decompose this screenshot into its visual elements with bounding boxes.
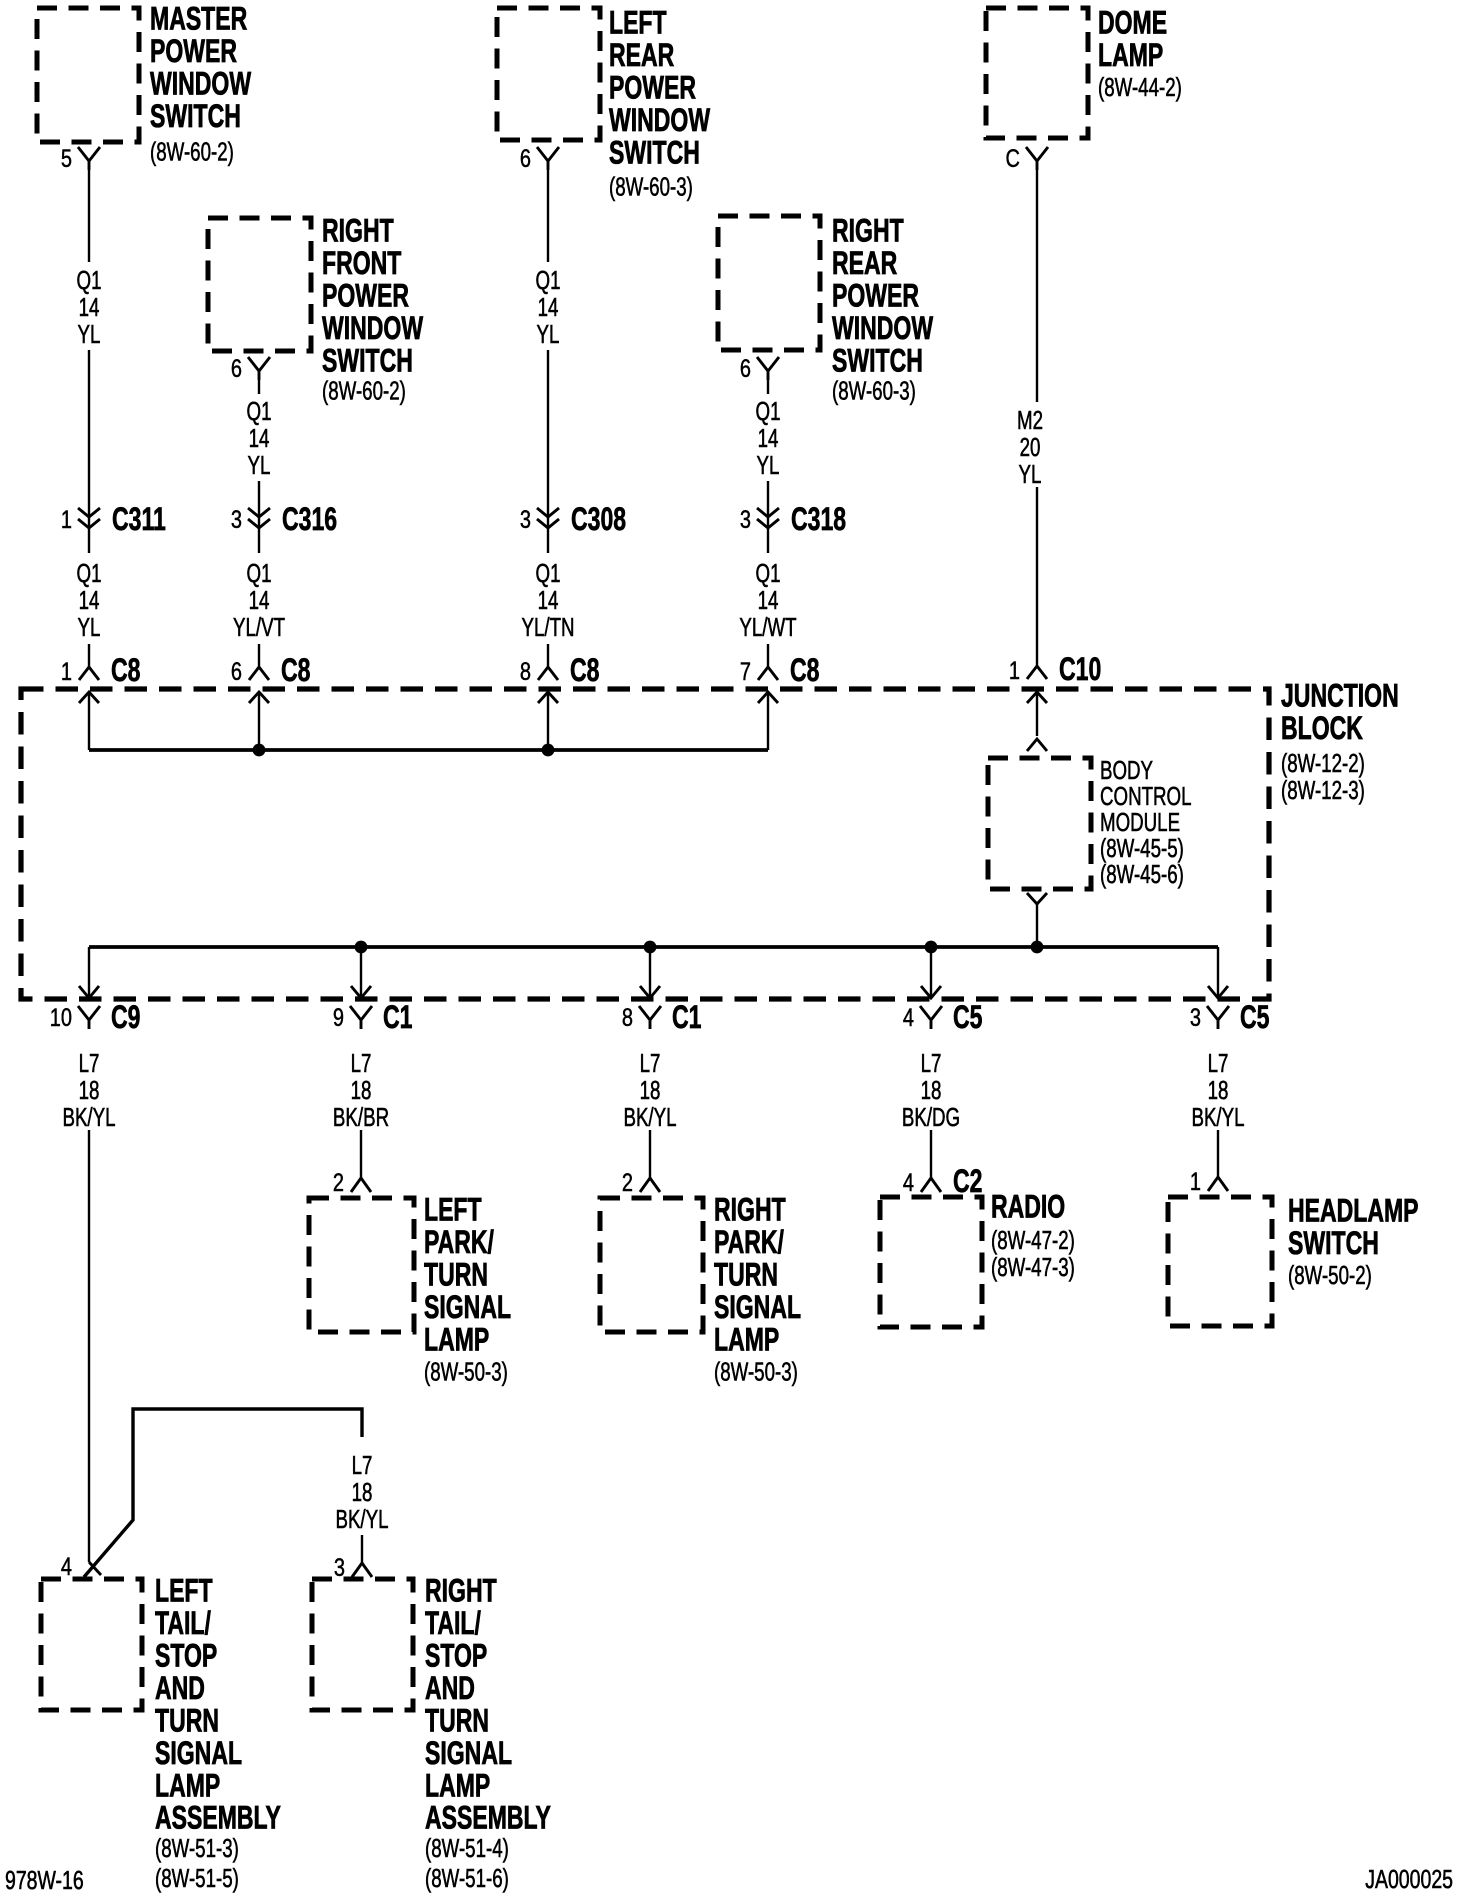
svg-text:YL/WT: YL/WT	[739, 612, 796, 642]
svg-text:LAMP: LAMP	[425, 1768, 490, 1804]
svg-text:18: 18	[79, 1075, 100, 1105]
svg-text:ASSEMBLY: ASSEMBLY	[155, 1800, 281, 1836]
svg-text:(8W-50-3): (8W-50-3)	[714, 1356, 798, 1386]
svg-text:14: 14	[79, 585, 100, 615]
junction block connector C1 pin 9	[333, 999, 413, 1035]
wire label Q1 14 YL/WT (to C8 pin 7)	[739, 558, 796, 642]
svg-text:BK/YL: BK/YL	[335, 1504, 388, 1534]
svg-text:L7: L7	[921, 1048, 942, 1078]
wire label L7 18 BK/YL (C9 pin 10)	[62, 1048, 115, 1132]
svg-text:7: 7	[740, 658, 751, 686]
wire to right park/turn signal lamp	[649, 1130, 651, 1178]
svg-text:WINDOW: WINDOW	[322, 310, 424, 346]
svg-text:TAIL/: TAIL/	[155, 1605, 211, 1641]
svg-text:C1: C1	[672, 999, 701, 1035]
svg-text:C318: C318	[791, 501, 846, 537]
label: radio	[991, 1189, 1075, 1282]
svg-text:14: 14	[758, 423, 779, 453]
connector pin 6 of right rear power window switch	[740, 355, 779, 383]
arrow into junction block from C8 pin 7	[758, 692, 778, 750]
svg-text:JA000025: JA000025	[1365, 1864, 1453, 1893]
svg-text:YL: YL	[248, 450, 271, 480]
label: right rear power window switch	[832, 213, 934, 405]
wire from left rear switch (lower segment)	[547, 350, 549, 553]
wire label Q1 14 YL (left rear)	[536, 265, 561, 349]
svg-text:9: 9	[333, 1004, 344, 1032]
svg-text:C311: C311	[112, 501, 166, 537]
connector pin 6 of right front power window switch	[231, 355, 270, 383]
svg-text:(8W-45-6): (8W-45-6)	[1100, 859, 1184, 889]
svg-text:(8W-60-3): (8W-60-3)	[609, 171, 693, 201]
arrow out of junction block to C5 pin 3	[1208, 947, 1228, 998]
svg-text:4: 4	[903, 1169, 914, 1197]
footer sheet number 978W-16	[5, 1865, 84, 1894]
connector pin 2 of left park/turn signal lamp	[333, 1169, 371, 1197]
wire from right rear switch (lower segment)	[767, 481, 769, 553]
label: right park/turn signal lamp	[714, 1192, 801, 1386]
in-line connector C311	[61, 501, 166, 537]
label: headlamp switch	[1288, 1193, 1419, 1290]
wire label L7 18 BK/YL (C5 pin 3)	[1191, 1048, 1244, 1132]
bus wire from body control module to output pins	[89, 945, 1218, 949]
svg-text:3: 3	[231, 506, 242, 534]
svg-text:C8: C8	[111, 652, 140, 688]
svg-text:SIGNAL: SIGNAL	[155, 1735, 242, 1771]
svg-text:YL: YL	[537, 319, 560, 349]
wire to radio	[930, 1130, 932, 1178]
svg-text:2: 2	[622, 1169, 633, 1197]
svg-text:(8W-12-2): (8W-12-2)	[1281, 748, 1365, 778]
svg-text:5: 5	[61, 145, 72, 173]
svg-text:FRONT: FRONT	[322, 245, 401, 281]
svg-text:C1: C1	[383, 999, 412, 1035]
wire label L7 18 BK/YL (C1 pin 8)	[623, 1048, 676, 1132]
svg-text:3: 3	[520, 506, 531, 534]
wire into C8 pin 7	[767, 644, 769, 667]
wire from dome lamp (lower segment)	[1036, 487, 1038, 666]
svg-text:YL: YL	[1019, 459, 1042, 489]
wire label L7 18 BK/DG (C5 pin 4)	[902, 1048, 960, 1132]
wire label Q1 14 YL (to C8 pin 1)	[77, 558, 102, 642]
svg-text:(8W-50-2): (8W-50-2)	[1288, 1260, 1372, 1290]
connector pin 6 of left rear power window switch	[520, 145, 559, 173]
svg-text:14: 14	[758, 585, 779, 615]
svg-text:SIGNAL: SIGNAL	[425, 1735, 512, 1771]
svg-text:LEFT: LEFT	[155, 1573, 213, 1609]
svg-text:L7: L7	[352, 1450, 373, 1480]
svg-text:18: 18	[640, 1075, 661, 1105]
svg-text:TURN: TURN	[425, 1703, 489, 1739]
svg-text:3: 3	[740, 506, 751, 534]
connector pin 4 of left tail lamp assembly	[61, 1553, 101, 1581]
svg-text:WINDOW: WINDOW	[150, 66, 252, 102]
svg-text:RIGHT: RIGHT	[425, 1573, 497, 1609]
wire from right rear switch (upper segment)	[767, 380, 769, 394]
svg-text:L7: L7	[79, 1048, 100, 1078]
svg-text:REAR: REAR	[832, 245, 897, 281]
bus wire linking C8 pins inside junction block	[89, 748, 768, 752]
wire into C8 pin 1	[88, 644, 90, 667]
junction block connector C5 pin 4	[903, 999, 983, 1035]
svg-text:AND: AND	[425, 1670, 475, 1706]
component box: right front power window switch	[208, 218, 311, 351]
svg-text:1: 1	[1190, 1168, 1201, 1196]
svg-text:SWITCH: SWITCH	[832, 343, 923, 379]
component box: headlamp switch	[1168, 1197, 1272, 1326]
svg-text:M2: M2	[1017, 405, 1043, 435]
svg-text:1: 1	[1009, 657, 1020, 685]
wire into right tail lamp assembly	[361, 1535, 363, 1563]
svg-text:C308: C308	[571, 501, 626, 537]
svg-text:POWER: POWER	[322, 278, 409, 314]
junction dot on lower bus at C5 pin 4 wire	[925, 941, 938, 954]
svg-text:(8W-60-2): (8W-60-2)	[150, 136, 234, 166]
label: body control module	[1100, 755, 1191, 889]
svg-text:BK/YL: BK/YL	[623, 1102, 676, 1132]
svg-text:YL/TN: YL/TN	[521, 612, 574, 642]
svg-text:SIGNAL: SIGNAL	[424, 1289, 511, 1325]
svg-text:3: 3	[1190, 1004, 1201, 1032]
junction dot on bus at C8 pin 8 wire	[542, 744, 555, 757]
wire from right front switch (upper segment)	[258, 380, 260, 394]
svg-text:LAMP: LAMP	[424, 1322, 489, 1358]
svg-text:4: 4	[903, 1004, 914, 1032]
junction block connector C1 pin 8	[622, 999, 702, 1035]
arrow out of junction block to C1 pin 9	[351, 947, 371, 998]
svg-text:REAR: REAR	[609, 37, 674, 73]
in-line connector C308	[520, 501, 626, 537]
svg-text:C10: C10	[1059, 651, 1101, 687]
arrow into junction block from C8 pin 6	[249, 692, 269, 750]
branch wire to right tail lamp assembly	[84, 1409, 362, 1577]
svg-text:Q1: Q1	[756, 558, 781, 588]
svg-text:Q1: Q1	[77, 558, 102, 588]
svg-text:JUNCTION: JUNCTION	[1281, 678, 1399, 714]
svg-text:(8W-47-3): (8W-47-3)	[991, 1252, 1075, 1282]
svg-text:L7: L7	[351, 1048, 372, 1078]
junction dot on lower bus at C1 pin 8 wire	[644, 941, 657, 954]
component box: radio	[880, 1197, 982, 1327]
junction block connector C5 pin 3	[1190, 999, 1270, 1035]
svg-text:18: 18	[352, 1477, 373, 1507]
svg-text:STOP: STOP	[425, 1638, 487, 1674]
svg-text:18: 18	[351, 1075, 372, 1105]
svg-text:WINDOW: WINDOW	[832, 310, 934, 346]
svg-text:(8W-47-2): (8W-47-2)	[991, 1225, 1075, 1255]
connector pin 3 of right tail lamp assembly	[334, 1554, 372, 1582]
svg-text:(8W-51-3): (8W-51-3)	[155, 1833, 239, 1863]
wire label Q1 14 YL (master)	[77, 265, 102, 349]
svg-text:C8: C8	[790, 652, 819, 688]
label: left tail/stop and turn signal lamp assembly	[155, 1573, 281, 1893]
svg-text:YL: YL	[757, 450, 780, 480]
connector pin 5 of master power window switch	[61, 145, 100, 173]
svg-text:TURN: TURN	[424, 1257, 488, 1293]
svg-text:SWITCH: SWITCH	[1288, 1225, 1379, 1261]
wire label Q1 14 YL/TN (to C8 pin 8)	[521, 558, 574, 642]
connector chevron into body control module	[1027, 739, 1047, 751]
wire to left park/turn signal lamp	[360, 1130, 362, 1178]
wire into C8 pin 8	[547, 644, 549, 667]
wire label L7 18 BK/YL (right tail)	[335, 1450, 388, 1534]
svg-text:LAMP: LAMP	[714, 1322, 779, 1358]
svg-text:3: 3	[334, 1554, 345, 1582]
svg-text:(8W-44-2): (8W-44-2)	[1098, 72, 1182, 102]
svg-text:C5: C5	[953, 999, 982, 1035]
long wire from C9 to left tail lamp assembly	[88, 1130, 90, 1562]
junction block connector C8 pin 1	[61, 652, 141, 688]
wire into C8 pin 6	[258, 644, 260, 667]
svg-text:RIGHT: RIGHT	[832, 213, 904, 249]
label: left park/turn signal lamp	[424, 1192, 511, 1386]
svg-text:YL: YL	[78, 319, 101, 349]
svg-text:POWER: POWER	[832, 278, 919, 314]
svg-text:1: 1	[61, 506, 72, 534]
junction block connector C10 pin 1	[1009, 651, 1101, 687]
svg-text:WINDOW: WINDOW	[609, 102, 711, 138]
svg-text:BK/YL: BK/YL	[1191, 1102, 1244, 1132]
junction block connector C8 pin 6	[231, 652, 311, 688]
svg-text:8: 8	[520, 658, 531, 686]
svg-text:C8: C8	[570, 652, 599, 688]
svg-text:(8W-60-3): (8W-60-3)	[832, 375, 916, 405]
svg-text:(8W-51-4): (8W-51-4)	[425, 1833, 509, 1863]
svg-text:BLOCK: BLOCK	[1281, 710, 1363, 746]
in-line connector C316	[231, 501, 337, 537]
svg-text:LAMP: LAMP	[1098, 37, 1163, 73]
arrow into junction block from C8 pin 8	[538, 692, 558, 750]
component box: right park/turn signal lamp	[600, 1198, 703, 1332]
label: left rear power window switch	[609, 5, 711, 201]
svg-text:LEFT: LEFT	[424, 1192, 482, 1228]
svg-text:10: 10	[50, 1004, 72, 1032]
wire label Q1 14 YL (right rear)	[756, 396, 781, 480]
junction block (8W-12-2)(8W-12-3) dashed outline	[21, 689, 1269, 999]
connector pin 1 of headlamp switch	[1190, 1168, 1228, 1196]
label: junction block	[1281, 678, 1399, 805]
svg-text:14: 14	[538, 585, 559, 615]
svg-text:1: 1	[61, 658, 72, 686]
wire label L7 18 BK/BR (C1 pin 9)	[333, 1048, 389, 1132]
svg-text:6: 6	[231, 658, 242, 686]
svg-text:ASSEMBLY: ASSEMBLY	[425, 1800, 551, 1836]
junction dot on lower bus at C1 pin 9 wire	[355, 941, 368, 954]
wire to headlamp switch	[1217, 1130, 1219, 1177]
connector C2 pin 4 of radio	[903, 1163, 983, 1199]
component box: body control module	[988, 758, 1091, 889]
svg-text:(8W-51-6): (8W-51-6)	[425, 1863, 509, 1893]
svg-text:PARK/: PARK/	[714, 1224, 784, 1260]
svg-text:BK/DG: BK/DG	[902, 1102, 960, 1132]
svg-text:LEFT: LEFT	[609, 5, 667, 41]
svg-text:C9: C9	[111, 999, 140, 1035]
wire label Q1 14 YL/VT (to C8 pin 6)	[233, 558, 285, 642]
svg-text:L7: L7	[1208, 1048, 1229, 1078]
svg-text:PARK/: PARK/	[424, 1224, 494, 1260]
label: dome lamp	[1098, 5, 1182, 102]
svg-text:AND: AND	[155, 1670, 205, 1706]
svg-text:6: 6	[740, 355, 751, 383]
arrow into junction block from C8 pin 1	[79, 692, 99, 750]
junction dot on bus at C8 pin 6 wire	[253, 744, 266, 757]
svg-text:TAIL/: TAIL/	[425, 1605, 481, 1641]
svg-text:SIGNAL: SIGNAL	[714, 1289, 801, 1325]
svg-text:C2: C2	[953, 1163, 982, 1199]
wire label M2 20 YL (dome lamp)	[1017, 405, 1043, 489]
connector pin C of dome lamp	[1006, 145, 1048, 173]
svg-text:(8W-50-3): (8W-50-3)	[424, 1356, 508, 1386]
label: right tail/stop and turn signal lamp assembly	[425, 1573, 551, 1893]
svg-text:YL/VT: YL/VT	[233, 612, 285, 642]
svg-text:Q1: Q1	[756, 396, 781, 426]
svg-text:RIGHT: RIGHT	[322, 213, 394, 249]
connector chevron out of body control module	[1027, 893, 1047, 947]
svg-text:Q1: Q1	[77, 265, 102, 295]
wire from right front switch (lower segment)	[258, 481, 260, 553]
junction block connector C8 pin 8	[520, 652, 600, 688]
in-line connector C318	[740, 501, 846, 537]
svg-text:14: 14	[538, 292, 559, 322]
svg-text:TURN: TURN	[714, 1257, 778, 1293]
svg-text:Q1: Q1	[247, 558, 272, 588]
svg-text:6: 6	[520, 145, 531, 173]
svg-text:18: 18	[921, 1075, 942, 1105]
wire from dome lamp (upper segment)	[1036, 170, 1038, 402]
svg-text:C5: C5	[1240, 999, 1269, 1035]
svg-text:Q1: Q1	[247, 396, 272, 426]
svg-text:SWITCH: SWITCH	[150, 98, 241, 134]
svg-text:STOP: STOP	[155, 1638, 217, 1674]
svg-text:LAMP: LAMP	[155, 1768, 220, 1804]
svg-text:8: 8	[622, 1004, 633, 1032]
svg-text:POWER: POWER	[150, 33, 237, 69]
component box: master power window switch	[37, 8, 139, 142]
junction block connector C8 pin 7	[740, 652, 820, 688]
svg-text:RIGHT: RIGHT	[714, 1192, 786, 1228]
component box: dome lamp	[986, 8, 1088, 138]
svg-text:SWITCH: SWITCH	[609, 135, 700, 171]
arrow out of junction block to C1 pin 8	[640, 947, 660, 998]
svg-text:YL: YL	[78, 612, 101, 642]
svg-text:TURN: TURN	[155, 1703, 219, 1739]
svg-text:MASTER: MASTER	[150, 1, 247, 37]
svg-text:6: 6	[231, 355, 242, 383]
component box: left park/turn signal lamp	[309, 1198, 414, 1332]
svg-text:(8W-60-2): (8W-60-2)	[322, 375, 406, 405]
svg-text:BK/YL: BK/YL	[62, 1102, 115, 1132]
wire label Q1 14 YL (right front)	[247, 396, 272, 480]
svg-text:14: 14	[249, 423, 270, 453]
arrow out of junction block to C9 pin 10	[79, 947, 99, 998]
svg-text:4: 4	[61, 1553, 72, 1581]
svg-text:C8: C8	[281, 652, 310, 688]
wire from master switch (upper segment)	[88, 170, 90, 262]
arrow out of junction block to C5 pin 4	[921, 947, 941, 998]
svg-text:POWER: POWER	[609, 70, 696, 106]
svg-text:2: 2	[333, 1169, 344, 1197]
svg-text:20: 20	[1020, 432, 1041, 462]
svg-text:C: C	[1006, 145, 1020, 173]
connector pin 2 of right park/turn signal lamp	[622, 1169, 660, 1197]
svg-text:L7: L7	[640, 1048, 661, 1078]
component box: right tail/stop and turn signal lamp assembly	[312, 1579, 413, 1710]
svg-text:Q1: Q1	[536, 265, 561, 295]
svg-text:978W-16: 978W-16	[5, 1865, 84, 1894]
wire from left rear switch (upper segment)	[547, 170, 549, 262]
component box: right rear power window switch	[718, 216, 820, 350]
wire from master switch (lower segment)	[88, 350, 90, 553]
component box: left tail/stop and turn signal lamp assembly	[41, 1579, 142, 1710]
svg-text:DOME: DOME	[1098, 5, 1167, 41]
svg-text:14: 14	[249, 585, 270, 615]
svg-text:HEADLAMP: HEADLAMP	[1288, 1193, 1419, 1229]
component box: left rear power window switch	[497, 8, 600, 140]
arrow into junction block from C10 pin 1	[1027, 692, 1047, 736]
svg-text:14: 14	[79, 292, 100, 322]
junction block connector C9 pin 10	[50, 999, 141, 1035]
svg-text:Q1: Q1	[536, 558, 561, 588]
label: right front power window switch	[322, 213, 424, 405]
footer drawing number JA000025	[1365, 1864, 1453, 1893]
svg-text:(8W-51-5): (8W-51-5)	[155, 1863, 239, 1893]
svg-text:C316: C316	[282, 501, 337, 537]
svg-text:SWITCH: SWITCH	[322, 343, 413, 379]
junction dot on lower bus at body control module wire	[1031, 941, 1044, 954]
svg-text:18: 18	[1208, 1075, 1229, 1105]
svg-text:RADIO: RADIO	[991, 1189, 1065, 1225]
svg-text:(8W-12-3): (8W-12-3)	[1281, 775, 1365, 805]
svg-text:BK/BR: BK/BR	[333, 1102, 389, 1132]
label: master power window switch	[150, 1, 252, 166]
